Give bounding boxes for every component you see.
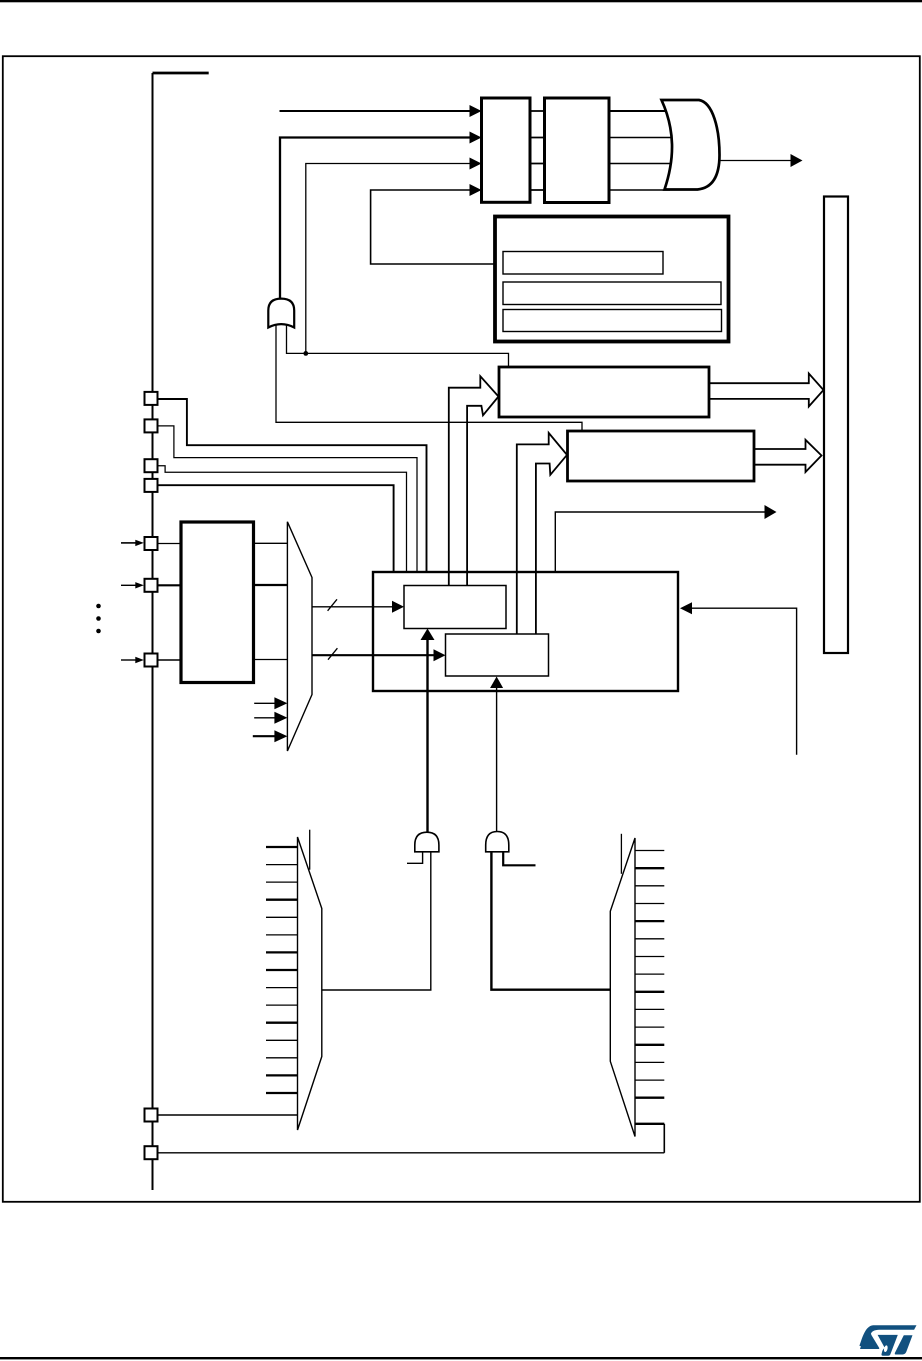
header rule <box>0 0 922 2</box>
wire mux M3 16th input (bold tick) <box>635 1123 664 1125</box>
gate G2 (OR shape pointing right) <box>662 100 720 190</box>
ellipsis dots <box>96 604 101 609</box>
pin1 route wire <box>158 399 427 571</box>
register R1c <box>503 310 722 332</box>
wire: up arrow from gate G4 to B3b <box>496 688 498 833</box>
wire: row1 into U1 <box>280 110 471 112</box>
pin3 route wire <box>157 466 407 571</box>
wire G3 right input from mux M2 output <box>322 852 431 990</box>
wire pin5 to box B4 <box>158 543 181 545</box>
wires U1 to U2 (4 rows) <box>530 111 545 190</box>
inner box B3a <box>404 586 506 629</box>
box B4 (bold) <box>181 522 254 683</box>
junction A dot <box>303 351 308 356</box>
wire B4 to mux M1 row1 <box>254 542 288 544</box>
wire: APB bus L-shape top-left <box>153 72 209 75</box>
footer rule <box>0 1357 922 1359</box>
wire: to-NVIC arrow from B3 top <box>555 512 765 572</box>
wire: row2 from OR gate G1 up and into U1 <box>280 138 470 299</box>
input arrow pin7 <box>121 659 137 661</box>
mux M3 trapezoid (right) <box>610 838 635 1137</box>
wire: arrow entering B3 from right <box>692 608 797 755</box>
pin2 route wire <box>158 426 417 571</box>
wire pin9 long line <box>158 1152 665 1154</box>
box U1 <box>482 98 531 202</box>
wire: G1 left input down to box B2 top <box>276 322 582 430</box>
wire: mux M1 output 1 to B3a <box>312 606 393 608</box>
wire: row3 from junction A into U1 <box>306 164 470 354</box>
mux M2 input ticks <box>266 846 298 848</box>
wire pin7 to box B4 <box>158 659 181 661</box>
big box B3 (edge detect) <box>373 572 678 691</box>
gate G1 (OR pointing up) <box>268 299 294 328</box>
bus slash mark 1 <box>328 599 337 611</box>
box U2 <box>545 98 610 203</box>
wire B4 to mux M1 row2 (bold) <box>254 584 288 586</box>
hollow arrow H4 from B2 to T1 <box>754 440 822 472</box>
box B1 pending request <box>499 367 709 417</box>
inner box B3b <box>446 634 549 676</box>
bus pin squares <box>145 392 158 405</box>
hollow arrow H3 from B1 to T1 <box>709 374 824 407</box>
wire G3 left input stub <box>407 852 423 864</box>
box B2 <box>568 431 755 481</box>
wire B4 to mux M1 row3 <box>254 659 288 661</box>
wire G4 left input from mux M3 output (bold) <box>491 852 610 990</box>
input arrow pin5 <box>121 542 137 544</box>
wire: left bus vertical line <box>152 73 154 1190</box>
wire: G1 right input to pending box B1 top <box>287 322 509 366</box>
gate G3 (AND dome) <box>415 832 439 852</box>
register R1a <box>503 252 663 275</box>
pin4 route wire <box>157 485 394 571</box>
hollow arrow H1 from B3a up to B1 <box>449 376 499 586</box>
hollow arrow H2 from B3b up to B2 <box>517 433 567 634</box>
wire down from tick to pin9 line <box>663 1124 665 1153</box>
wire pin8 to mux M2 <box>157 1114 298 1116</box>
register R1b <box>503 282 721 305</box>
wire pin6 to box B4 (bold) <box>158 584 181 586</box>
gate G4 (AND dome) <box>486 832 509 852</box>
mux M3 input ticks <box>635 850 664 852</box>
mux M2 trapezoid (left) <box>298 837 322 1130</box>
wire: G2 output arrow <box>720 160 791 162</box>
wire: mux M1 output 2 to B3b (bold) <box>312 654 434 656</box>
tall bus rect T1 <box>824 197 848 654</box>
wire G4 right input stub (bold) <box>503 852 535 866</box>
wire: up arrow from gate G3 to B3a (bold) <box>426 640 428 834</box>
mux M3 select line <box>620 834 622 874</box>
mux M1 trapezoid <box>287 522 312 751</box>
wires U2 to gate G2 (4 rows) <box>609 110 672 112</box>
bus slash mark 2 <box>328 648 337 660</box>
ST logo <box>859 1325 916 1356</box>
input arrow pin6 <box>121 584 137 586</box>
mux M2 select line <box>309 830 311 870</box>
register block R1 (bold) <box>495 217 729 342</box>
mux M1 select inputs (3 arrows) <box>254 702 276 704</box>
wire: row4 from register box into U1 <box>371 190 503 264</box>
